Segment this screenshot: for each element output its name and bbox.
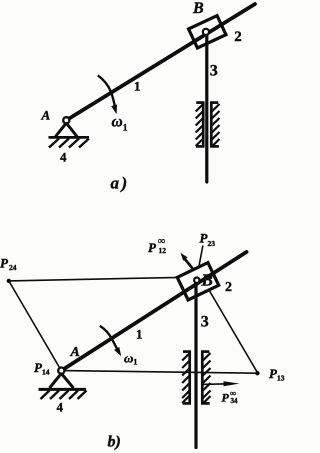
link 1 (fig b) — [61, 252, 246, 371]
rod 3 (fig a) — [205, 34, 208, 182]
ground (fig a) — [49, 137, 90, 147]
omega arrow (fig b) — [100, 326, 121, 356]
line B to P13 (fig b) — [209, 290, 257, 373]
svg-text:34: 34 — [231, 397, 239, 405]
label P12-infinity — [148, 236, 166, 255]
node P13 — [255, 371, 259, 375]
rod 3 (fig b) — [194, 282, 197, 448]
svg-text:A: A — [41, 108, 51, 123]
pin B (fig a) — [203, 29, 209, 35]
svg-text:4: 4 — [57, 400, 64, 415]
svg-text:a): a) — [111, 174, 130, 193]
svg-text:ω1: ω1 — [112, 114, 128, 134]
line A to P13 (fig b) — [61, 371, 257, 374]
guide hatching left (fig a) — [196, 105, 203, 147]
line P24 to A (fig b) — [9, 281, 62, 371]
pin B (fig b) — [194, 278, 199, 283]
line P23 to pin B (fig b) — [197, 246, 203, 276]
arrow P12-infinity (fig b) — [181, 253, 195, 271]
svg-text:1: 1 — [136, 327, 143, 342]
svg-text:2: 2 — [234, 29, 242, 45]
svg-text:P13: P13 — [269, 366, 285, 383]
svg-text:3: 3 — [210, 62, 218, 79]
svg-text:ω1: ω1 — [124, 351, 137, 367]
svg-text:P: P — [148, 240, 157, 255]
svg-text:4: 4 — [60, 149, 67, 164]
guide of rod 3 (fig a) — [196, 102, 219, 148]
line P24 to slider (fig b) — [9, 277, 180, 281]
label P34-infinity — [222, 388, 239, 405]
svg-text:B: B — [201, 271, 213, 290]
ground (fig b) — [39, 389, 87, 399]
guide hatching right (fig a) — [212, 104, 220, 147]
guide hatching right (fig b) — [203, 353, 211, 404]
pivot A (fig b) — [50, 368, 74, 389]
svg-text:b): b) — [108, 434, 121, 451]
node P24 — [7, 279, 11, 283]
slider block 2 (fig b) — [177, 263, 218, 300]
svg-text:P23: P23 — [200, 231, 216, 249]
svg-text:P24: P24 — [0, 256, 17, 273]
omega arrow (fig a) — [98, 75, 117, 114]
svg-text:P14: P14 — [34, 360, 50, 377]
slider block 2 (fig a) — [189, 16, 226, 48]
svg-text:P: P — [222, 391, 230, 405]
arrow P34-infinity (fig b) — [201, 381, 240, 386]
link 1 (fig a) — [66, 4, 255, 120]
svg-text:1: 1 — [134, 79, 141, 94]
svg-text:2: 2 — [225, 280, 232, 295]
pivot A (fig a) — [56, 117, 78, 136]
svg-text:3: 3 — [201, 314, 209, 331]
svg-text:12: 12 — [159, 246, 167, 255]
guide of rod 3 (fig b) — [183, 351, 210, 405]
svg-text:B: B — [192, 0, 204, 17]
svg-text:A: A — [70, 345, 80, 360]
guide hatching left (fig b) — [182, 354, 189, 404]
